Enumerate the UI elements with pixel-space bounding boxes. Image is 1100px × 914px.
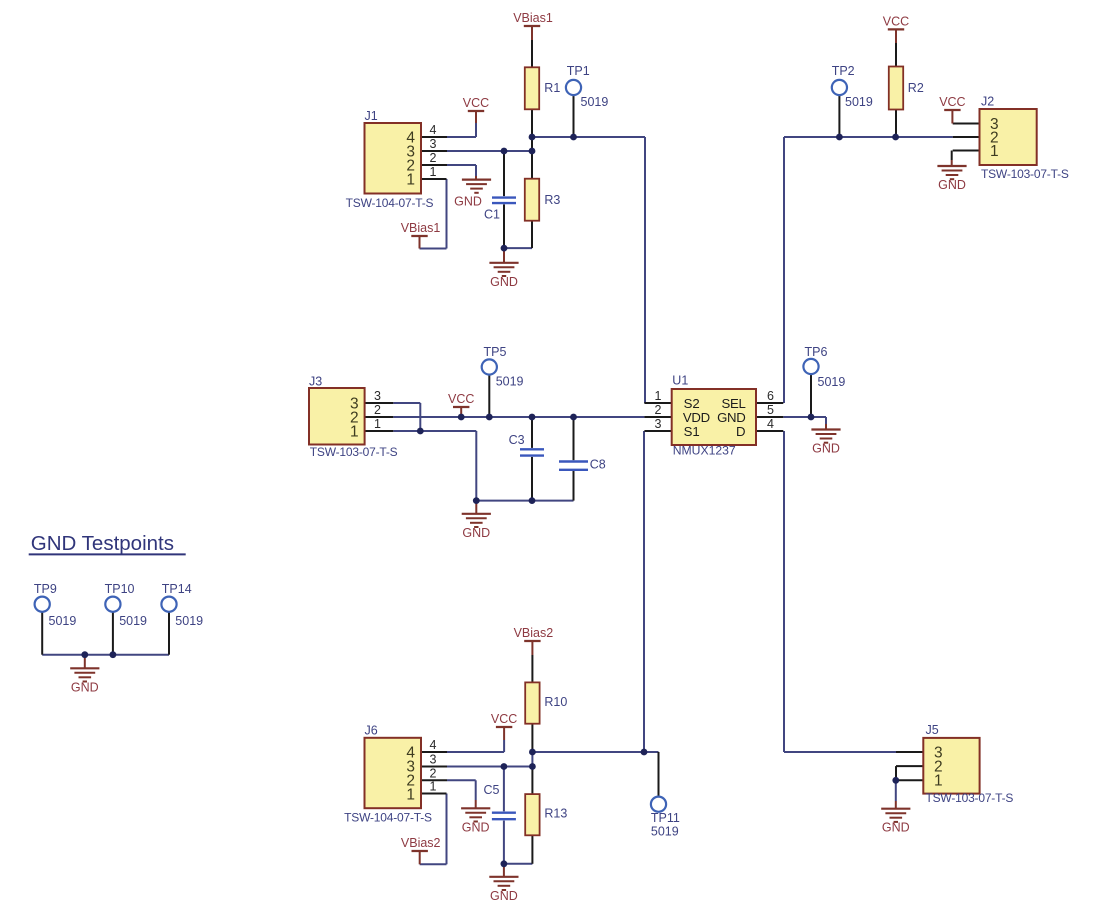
svg-text:R1: R1 — [544, 81, 560, 95]
svg-text:TSW-103-07-T-S: TSW-103-07-T-S — [981, 167, 1069, 181]
svg-text:VCC: VCC — [883, 14, 909, 28]
svg-text:TP11: TP11 — [651, 811, 680, 825]
svg-text:1: 1 — [655, 389, 662, 403]
svg-text:5: 5 — [767, 403, 774, 417]
svg-text:C5: C5 — [484, 783, 500, 797]
svg-text:TP14: TP14 — [162, 582, 192, 596]
svg-text:VCC: VCC — [491, 712, 517, 726]
svg-text:D: D — [736, 424, 746, 439]
svg-text:U1: U1 — [672, 374, 688, 388]
svg-text:S2: S2 — [684, 396, 700, 411]
svg-text:5019: 5019 — [818, 375, 846, 389]
svg-text:J1: J1 — [365, 109, 378, 123]
svg-text:1: 1 — [934, 773, 943, 790]
svg-text:R10: R10 — [544, 695, 567, 709]
svg-text:2: 2 — [430, 766, 437, 780]
svg-text:S1: S1 — [684, 424, 700, 439]
svg-text:3: 3 — [374, 389, 381, 403]
svg-text:5019: 5019 — [845, 95, 873, 109]
svg-text:5019: 5019 — [496, 375, 524, 389]
svg-text:R13: R13 — [544, 807, 567, 821]
svg-text:VCC: VCC — [939, 95, 965, 109]
svg-text:TP10: TP10 — [105, 582, 135, 596]
svg-text:TP2: TP2 — [832, 64, 855, 78]
svg-text:GND: GND — [454, 195, 482, 209]
svg-text:1: 1 — [350, 424, 359, 441]
svg-text:C8: C8 — [590, 458, 606, 472]
svg-text:4: 4 — [767, 417, 774, 431]
svg-text:1: 1 — [374, 417, 381, 431]
svg-text:5019: 5019 — [651, 825, 679, 839]
svg-text:R3: R3 — [544, 193, 560, 207]
svg-text:3: 3 — [655, 417, 662, 431]
svg-text:R2: R2 — [908, 81, 924, 95]
svg-text:5019: 5019 — [175, 614, 203, 628]
svg-text:VBias1: VBias1 — [401, 221, 441, 235]
svg-text:GND: GND — [71, 680, 99, 694]
svg-text:VCC: VCC — [463, 96, 489, 110]
svg-text:4: 4 — [430, 123, 437, 137]
svg-text:VBias2: VBias2 — [401, 836, 441, 850]
svg-text:J5: J5 — [926, 723, 939, 737]
svg-text:J2: J2 — [981, 95, 994, 109]
svg-text:VBias2: VBias2 — [514, 626, 554, 640]
svg-text:VDD: VDD — [683, 410, 710, 425]
svg-text:NMUX1237: NMUX1237 — [673, 444, 736, 458]
svg-text:1: 1 — [990, 143, 999, 160]
svg-text:VCC: VCC — [448, 392, 474, 406]
svg-text:TP1: TP1 — [567, 64, 590, 78]
svg-text:C3: C3 — [509, 433, 525, 447]
svg-text:2: 2 — [655, 403, 662, 417]
svg-text:3: 3 — [430, 137, 437, 151]
svg-text:1: 1 — [430, 165, 437, 179]
svg-text:GND Testpoints: GND Testpoints — [31, 532, 174, 555]
svg-text:TSW-104-07-T-S: TSW-104-07-T-S — [346, 196, 434, 210]
svg-text:1: 1 — [406, 172, 415, 189]
svg-text:VBias1: VBias1 — [513, 11, 553, 25]
svg-text:GND: GND — [938, 178, 966, 192]
svg-text:2: 2 — [374, 403, 381, 417]
svg-text:C1: C1 — [484, 208, 500, 222]
svg-text:3: 3 — [430, 753, 437, 767]
svg-text:1: 1 — [406, 787, 415, 804]
svg-text:GND: GND — [882, 821, 910, 835]
svg-text:GND: GND — [717, 410, 745, 425]
svg-text:GND: GND — [462, 526, 490, 540]
svg-text:TSW-103-07-T-S: TSW-103-07-T-S — [310, 445, 398, 459]
svg-text:TSW-104-07-T-S: TSW-104-07-T-S — [344, 811, 432, 825]
svg-text:GND: GND — [812, 442, 840, 456]
svg-text:1: 1 — [430, 780, 437, 794]
svg-text:GND: GND — [490, 889, 518, 903]
svg-text:SEL: SEL — [721, 396, 745, 411]
svg-text:GND: GND — [462, 820, 490, 834]
svg-text:TSW-103-07-T-S: TSW-103-07-T-S — [926, 791, 1014, 805]
svg-text:5019: 5019 — [49, 614, 77, 628]
svg-text:5019: 5019 — [581, 95, 609, 109]
svg-text:J6: J6 — [365, 724, 378, 738]
svg-text:TP5: TP5 — [484, 345, 507, 359]
svg-text:GND: GND — [490, 275, 518, 289]
svg-text:TP9: TP9 — [34, 582, 57, 596]
svg-text:J3: J3 — [309, 375, 322, 389]
svg-text:4: 4 — [430, 738, 437, 752]
svg-text:5019: 5019 — [119, 614, 147, 628]
svg-text:2: 2 — [430, 151, 437, 165]
svg-text:6: 6 — [767, 389, 774, 403]
svg-text:TP6: TP6 — [805, 345, 828, 359]
